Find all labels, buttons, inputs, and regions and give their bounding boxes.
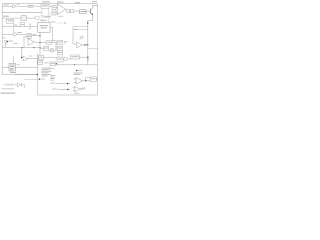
- junction dot node B: [87, 44, 88, 45]
- box B5 upper-left: [6, 19, 13, 23]
- box B18a: [57, 40, 63, 44]
- box B7 loop filter: [27, 34, 32, 39]
- amp T5 bottom right: [76, 77, 82, 84]
- box B3: [52, 11, 56, 15]
- vertical bus x=40: [39, 32, 41, 55]
- bullet list: [42, 68, 52, 77]
- wire: top-left input: [2, 5, 12, 7]
- box B17: [50, 62, 56, 66]
- label: [50, 67, 55, 70]
- box B1: [41, 4, 49, 8]
- border frame (L-shaped): [2, 4, 97, 95]
- wire from B9 right down: [50, 27, 53, 42]
- wire: [16, 5, 27, 7]
- wire row y=64.8: [56, 64, 98, 66]
- box B2: [52, 6, 56, 10]
- box B11 xtal osc: [2, 66, 9, 68]
- wires with dots bottom-center: [56, 83, 71, 85]
- vertical to inverter: [21, 48, 23, 58]
- box B6: [20, 23, 25, 27]
- box B10: [44, 46, 49, 50]
- wires around summer: [2, 33, 27, 35]
- wire row y=47.7: [2, 47, 40, 49]
- vertical into summer: [13, 27, 15, 33]
- resistor R1: [67, 10, 70, 13]
- wire from B7 to bus: [32, 35, 40, 37]
- diode D1 bar: [86, 44, 88, 46]
- capacitor C2: [11, 84, 13, 86]
- small comp B15: [64, 58, 67, 61]
- dashed arrow top of B9 area: [56, 22, 65, 24]
- inverter T6: [75, 86, 80, 92]
- box B14: [57, 57, 63, 62]
- verticals from B1 down: [42, 8, 49, 22]
- crystal trace bottom-left: [3, 84, 17, 86]
- junction dot node A: [87, 22, 88, 23]
- box B4: [80, 10, 87, 14]
- label above input wire: [4, 3, 9, 6]
- header text above frame: [42, 1, 97, 3]
- wire: [27, 17, 36, 19]
- vertical x=73: [73, 26, 77, 44]
- box B13: [38, 60, 43, 64]
- box B18: [90, 77, 96, 81]
- small fet symbol: [29, 23, 31, 29]
- long wire under top row: [2, 12, 42, 14]
- label left: [3, 16, 9, 17]
- box B9 phase detector: [38, 23, 51, 33]
- label supply: [3, 37, 6, 40]
- note list column 2: [50, 75, 55, 80]
- label right of B18a: [64, 40, 68, 43]
- junction dot: [74, 64, 75, 65]
- node label dot: [24, 78, 40, 80]
- capacitor C1: [6, 84, 8, 86]
- label above wire: [52, 39, 56, 42]
- resistor R2: [71, 10, 74, 13]
- buffer U1 top-left: [13, 5, 17, 8]
- right vertical bus: [87, 21, 89, 65]
- vertical divider x=37.3: [36, 54, 38, 75]
- wire: [69, 10, 72, 12]
- junction dot with label: [76, 70, 77, 71]
- wire emitter down to bus: [88, 17, 93, 24]
- diode D2: [87, 59, 89, 61]
- wire to mixer: [2, 17, 21, 19]
- junction dot node C: [87, 57, 88, 58]
- right horizontals: [73, 27, 87, 30]
- long wire row: [2, 26, 30, 28]
- wire row y=74.6 inside handled by frame: [15, 74, 37, 76]
- label fraction block: [28, 5, 34, 8]
- inverter U3: [21, 57, 22, 58]
- amp T4: [77, 42, 82, 48]
- box B8: [46, 41, 52, 45]
- box B18b: [57, 46, 63, 50]
- transistor Q1: [90, 9, 92, 14]
- box B12: [38, 55, 43, 60]
- junction dot: [84, 44, 85, 45]
- right detail texts: [74, 73, 83, 75]
- junction dot: [56, 63, 57, 64]
- op-amp T3 middle: [28, 39, 34, 46]
- wire: [49, 5, 52, 7]
- small box right of mixer: [35, 16, 39, 19]
- box B18c: [57, 51, 63, 55]
- wire to right frame: [88, 48, 98, 50]
- mixer M1 crossed box: [21, 16, 27, 21]
- mixer M2: [50, 48, 54, 52]
- summing node S1: [13, 33, 16, 36]
- buffer T7: [17, 83, 21, 87]
- wire from amp: [66, 9, 67, 11]
- label right of B11: [17, 63, 21, 66]
- current source symbol left: [5, 40, 8, 43]
- op-amp U2: [57, 4, 65, 15]
- box B16: [71, 55, 80, 59]
- fine print bottom-left: [2, 87, 15, 90]
- wire base: [85, 10, 91, 12]
- wire: [74, 10, 80, 12]
- wire: [34, 5, 41, 7]
